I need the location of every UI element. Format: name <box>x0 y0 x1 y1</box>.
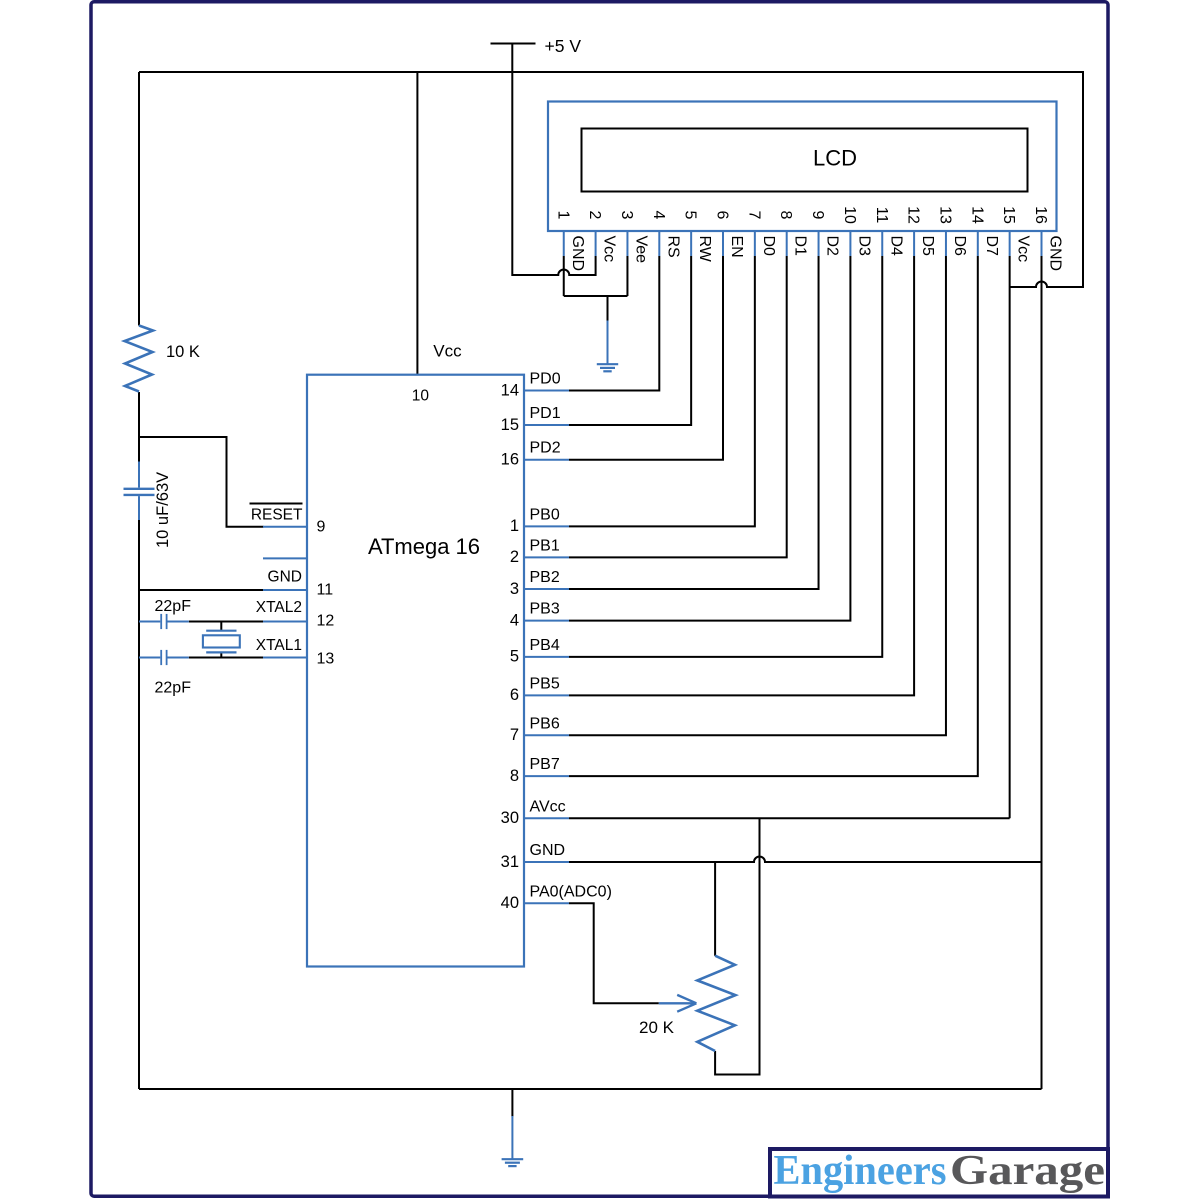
svg-text:15: 15 <box>1000 206 1017 224</box>
svg-text:16: 16 <box>1032 206 1049 224</box>
svg-text:PB3: PB3 <box>530 601 560 618</box>
svg-text:RESET: RESET <box>251 507 303 524</box>
svg-text:14: 14 <box>968 206 985 224</box>
svg-text:6: 6 <box>510 686 519 704</box>
svg-text:D3: D3 <box>855 236 872 257</box>
svg-text:8: 8 <box>777 211 794 220</box>
svg-text:15: 15 <box>501 416 519 434</box>
svg-text:PB7: PB7 <box>530 756 560 773</box>
svg-text:10 K: 10 K <box>166 343 200 361</box>
svg-text:11: 11 <box>873 207 890 224</box>
svg-text:4: 4 <box>510 611 519 629</box>
svg-text:40: 40 <box>501 894 519 912</box>
svg-text:10 uF/63V: 10 uF/63V <box>154 472 172 548</box>
svg-text:5: 5 <box>510 648 519 666</box>
svg-text:12: 12 <box>905 206 922 224</box>
svg-text:PD0: PD0 <box>530 371 561 388</box>
svg-text:+5 V: +5 V <box>545 36 582 56</box>
svg-text:Garage: Garage <box>950 1148 1105 1194</box>
svg-text:10: 10 <box>841 206 858 224</box>
svg-text:Engineers: Engineers <box>774 1148 947 1194</box>
svg-text:D2: D2 <box>824 236 841 257</box>
svg-text:3: 3 <box>510 580 519 598</box>
svg-text:9: 9 <box>317 519 326 536</box>
svg-text:4: 4 <box>650 211 667 220</box>
svg-text:13: 13 <box>936 206 953 224</box>
svg-text:31: 31 <box>501 853 519 871</box>
svg-text:20 K: 20 K <box>639 1018 675 1037</box>
svg-text:XTAL2: XTAL2 <box>256 599 302 616</box>
svg-text:2: 2 <box>586 211 603 220</box>
svg-text:RS: RS <box>664 236 681 258</box>
svg-text:D6: D6 <box>951 236 968 257</box>
svg-text:16: 16 <box>501 451 519 469</box>
svg-text:13: 13 <box>317 651 335 668</box>
svg-text:D4: D4 <box>887 236 904 257</box>
svg-text:ATmega 16: ATmega 16 <box>368 534 480 559</box>
svg-text:GND: GND <box>530 842 566 859</box>
svg-text:1: 1 <box>510 517 519 535</box>
svg-text:D7: D7 <box>983 236 1000 257</box>
svg-text:PD2: PD2 <box>530 440 561 457</box>
svg-text:22pF: 22pF <box>155 680 192 697</box>
svg-text:10: 10 <box>412 388 430 405</box>
svg-text:11: 11 <box>317 582 334 599</box>
svg-text:2: 2 <box>510 548 519 566</box>
svg-text:D0: D0 <box>760 236 777 257</box>
svg-text:D5: D5 <box>919 236 936 257</box>
svg-text:GND: GND <box>1047 236 1064 272</box>
svg-text:PB0: PB0 <box>530 506 560 523</box>
svg-text:14: 14 <box>501 381 519 399</box>
svg-text:22pF: 22pF <box>155 598 192 615</box>
svg-text:GND: GND <box>268 569 302 586</box>
svg-text:RW: RW <box>696 236 713 263</box>
svg-text:12: 12 <box>317 613 335 630</box>
svg-text:9: 9 <box>809 211 826 220</box>
svg-text:Vcc: Vcc <box>1015 236 1032 263</box>
svg-text:PA0(ADC0): PA0(ADC0) <box>530 883 612 900</box>
svg-text:GND: GND <box>569 236 586 272</box>
svg-text:5: 5 <box>682 211 699 220</box>
svg-text:7: 7 <box>510 726 519 744</box>
svg-text:PB5: PB5 <box>530 675 560 692</box>
svg-text:D1: D1 <box>792 236 809 257</box>
svg-text:XTAL1: XTAL1 <box>256 637 302 654</box>
svg-text:Vee: Vee <box>632 236 649 264</box>
svg-text:8: 8 <box>510 767 519 785</box>
svg-text:6: 6 <box>714 211 731 220</box>
svg-text:30: 30 <box>501 809 519 827</box>
svg-text:EN: EN <box>728 236 745 258</box>
svg-text:PB2: PB2 <box>530 569 560 586</box>
svg-text:PB1: PB1 <box>530 537 560 554</box>
svg-text:3: 3 <box>618 211 635 220</box>
svg-text:AVcc: AVcc <box>530 798 566 815</box>
svg-text:LCD: LCD <box>813 146 857 171</box>
svg-text:Vcc: Vcc <box>601 236 618 263</box>
svg-text:PB6: PB6 <box>530 715 560 732</box>
svg-text:1: 1 <box>554 211 571 220</box>
svg-text:7: 7 <box>745 211 762 220</box>
svg-text:PB4: PB4 <box>530 637 560 654</box>
svg-text:PD1: PD1 <box>530 405 561 422</box>
svg-text:Vcc: Vcc <box>433 342 462 361</box>
